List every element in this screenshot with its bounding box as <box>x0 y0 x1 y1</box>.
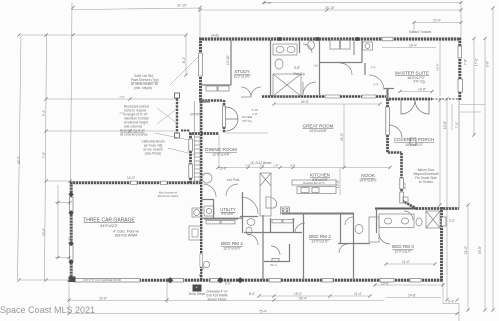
fixture: walk rungs <box>194 137 200 181</box>
window: garage north post1 <box>131 181 138 184</box>
wall: house-garage wall <box>200 101 202 280</box>
svg-text:Pull Down Stairs: Pull Down Stairs <box>158 194 179 198</box>
svg-text:4": 4" <box>196 286 199 290</box>
fixture: fridge diagonal2 <box>260 173 271 186</box>
window: south wall window bed3b <box>410 278 421 282</box>
wall: nook east wall <box>400 153 403 201</box>
wall: utility south wall <box>320 62 362 64</box>
node: garage wall diamond3 <box>68 241 73 246</box>
svg-text:KITCHEN: KITCHEN <box>310 173 330 178</box>
wire: garage mid dim y202 <box>55 202 70 204</box>
window: great room sliding door <box>386 107 390 135</box>
fixture: bath3 sink <box>384 218 391 224</box>
fixture: utility ahu circle <box>206 208 211 213</box>
door: bed3 door arc <box>379 233 390 244</box>
svg-text:5'-10": 5'-10" <box>252 108 259 112</box>
fixture: bath3 shower <box>426 211 440 228</box>
window: dining west window 1 <box>189 139 193 151</box>
window: south wall window bed4 <box>168 278 184 282</box>
door: bed2 door arc <box>295 223 305 233</box>
svg-text:COVERED PORCH: COVERED PORCH <box>394 137 435 142</box>
svg-text:w/ Screen: w/ Screen <box>419 180 433 184</box>
wire: bottom dim line y313 <box>69 313 459 315</box>
svg-text:11'-4": 11'-4" <box>354 292 362 296</box>
wall: entry door wall vertical <box>223 100 226 133</box>
fixture: bath toilet <box>275 59 283 69</box>
wire: right vertical dim x468 <box>467 205 469 310</box>
fixture: bath shower <box>273 74 301 96</box>
svg-text:FOYER: FOYER <box>242 115 253 119</box>
svg-text:14'-8": 14'-8" <box>418 88 426 92</box>
door: garage door opening in south wall <box>74 278 140 282</box>
svg-text:10'0"x10'0": 10'0"x10'0" <box>359 179 377 183</box>
wire: dim line y167 center <box>218 167 390 169</box>
wire: left vertical dim x46 <box>45 35 47 280</box>
svg-text:5'-8": 5'-8" <box>294 66 300 70</box>
svg-text:W.I.C.: W.I.C. <box>270 263 277 267</box>
fixture: bath2 tub <box>369 217 379 242</box>
window: bed3 east window <box>442 217 447 226</box>
svg-text:33'-8": 33'-8" <box>478 246 482 254</box>
wire: top dim line third <box>200 9 461 11</box>
wall: dining front wall short <box>189 132 219 135</box>
svg-text:9'4" Clg: 9'4" Clg <box>414 80 425 84</box>
svg-text:DINING ROOM: DINING ROOM <box>205 147 237 152</box>
wall: utility room south wall <box>202 217 243 219</box>
fixture: bath3 shower X2 <box>426 211 440 228</box>
svg-text:ENTRY: ENTRY <box>190 113 202 117</box>
svg-text:3'-4": 3'-4" <box>448 300 454 304</box>
wire: bottom dim y296 short <box>259 295 370 297</box>
wall: garage west wall <box>70 182 73 282</box>
svg-text:Flat Clg: Flat Clg <box>294 72 305 76</box>
fixture: kitchen island top <box>292 180 336 185</box>
wall: cabana bath wall <box>240 216 258 218</box>
wire: bottom dim line y300 <box>69 300 384 302</box>
wire: left dim line y35 <box>21 34 186 36</box>
door: wic door arc <box>339 244 348 253</box>
fixture: kitchen range <box>281 207 290 214</box>
wire: left vertical dim x58 <box>57 185 59 258</box>
fixture: garage water heater circle <box>194 210 200 216</box>
svg-text:Breakfast Bar 42" Hi: Breakfast Bar 42" Hi <box>303 182 325 185</box>
door: bath2 door arc <box>345 217 353 225</box>
wire: right vertical dim x452 <box>451 104 453 130</box>
wall: jog between greatroom and nook wall <box>388 151 402 153</box>
wire: vertical dim at x414 <box>413 23 415 34</box>
door: cabana bath door <box>247 234 258 245</box>
wall: top exterior wall of house <box>199 37 461 40</box>
svg-text:4x4 Post: 4x4 Post <box>227 178 240 182</box>
svg-text:1'-8": 1'-8" <box>273 164 278 168</box>
wall: utility north wall <box>202 199 213 201</box>
fixture: bath3 shower X1 <box>426 211 440 228</box>
fixture: bath2 sink <box>355 225 363 234</box>
svg-text:Brick Steps: Brick Steps <box>189 292 206 296</box>
wall: bed2 closet wall <box>270 218 272 232</box>
fixture: front stoop <box>189 226 201 240</box>
wire: vertical dim x186 entry <box>185 35 187 75</box>
svg-text:BED RM 3: BED RM 3 <box>392 244 414 249</box>
fixture: dining column circle <box>202 173 212 183</box>
svg-text:17'-0": 17'-0" <box>475 58 479 66</box>
window: nook east window1 <box>400 178 404 189</box>
wire: note leader 1 <box>170 56 199 85</box>
window: nook east window2 <box>400 192 404 203</box>
svg-text:6x6 #10 WWM: 6x6 #10 WWM <box>115 234 137 238</box>
fixture: bath3 toilet <box>416 218 422 226</box>
svg-text:21'-0": 21'-0" <box>464 246 468 254</box>
rotated dimension texts <box>17 55 490 254</box>
wire: vertical dim x69 bottom <box>68 281 70 314</box>
wall: entry stoop edge <box>181 130 190 132</box>
fixture: water closet toilet <box>308 41 315 50</box>
svg-text:9'-0": 9'-0" <box>225 282 231 286</box>
svg-text:5'-4": 5'-4" <box>42 110 46 116</box>
svg-text:7'-4": 7'-4" <box>455 122 459 128</box>
svg-text:12'0"x14'8": 12'0"x14'8" <box>212 153 230 157</box>
label: note block2 <box>124 105 149 129</box>
node: garage wall diamond4 <box>68 259 73 264</box>
wall: master east wall <box>458 38 461 100</box>
svg-text:(4) 2x12 Beam: (4) 2x12 Beam <box>251 161 272 165</box>
svg-text:7'-4": 7'-4" <box>370 66 375 70</box>
svg-text:10'0"x21'0": 10'0"x21'0" <box>405 143 423 147</box>
wall: utility west wall <box>213 199 215 218</box>
door: garage entry door arc <box>203 184 216 197</box>
svg-text:2'-8": 2'-8" <box>252 112 257 116</box>
wall: utility closet divider <box>353 40 355 55</box>
fixture: utility washer <box>330 40 340 49</box>
window: south wall window bed2b <box>322 278 333 282</box>
wall: great room east wall <box>386 99 389 153</box>
node: garage wall diamond1 <box>68 192 73 197</box>
window: south wall window bed3a <box>380 278 394 282</box>
wall: master entry wall <box>384 88 394 90</box>
wall: porch header dashed <box>432 98 459 100</box>
node: post diamond bottom3 <box>237 277 243 283</box>
fixture: range burner2 <box>286 208 288 210</box>
svg-text:5'-4": 5'-4" <box>373 83 378 87</box>
wall: master entry stub <box>386 88 388 99</box>
svg-text:10'-8": 10'-8" <box>443 121 447 129</box>
wall: bed2 wic east <box>289 244 291 262</box>
node: post mark top1 <box>278 37 282 41</box>
door: wic arc <box>271 246 280 255</box>
wire: right horiz dim y104 <box>460 104 485 106</box>
svg-text:STUDY: STUDY <box>234 69 250 74</box>
wire: right vertical dim x493 <box>492 8 494 310</box>
wire: left horiz dim y131 <box>46 130 176 132</box>
wire: tag leader <box>199 267 204 276</box>
wall: bath inner wall <box>299 40 301 53</box>
fixture: bath vanity sink <box>276 46 284 52</box>
wire: bed3 dim y264 <box>386 263 435 265</box>
wall: great room north wall <box>262 95 386 98</box>
wire: garage top dim y181 <box>46 180 70 182</box>
wire: vertical dim x219 gallery <box>218 135 220 168</box>
door: bath door arc <box>303 82 316 95</box>
node: post diamond bottom2 <box>217 277 223 283</box>
svg-text:24'-8": 24'-8" <box>301 100 309 104</box>
svg-text:12'0"x11'0": 12'0"x11'0" <box>394 250 412 254</box>
svg-text:(min. height): (min. height) <box>134 86 152 90</box>
door: utility door arc <box>340 63 352 75</box>
svg-text:75'-4": 75'-4" <box>259 310 267 314</box>
fixture: study closet doors2 <box>218 86 229 91</box>
svg-text:31'-10": 31'-10" <box>177 4 187 8</box>
door: bath door leaf <box>302 82 304 95</box>
svg-text:8'-4": 8'-4" <box>249 292 255 296</box>
svg-text:MASTER SUITE: MASTER SUITE <box>395 71 429 76</box>
svg-text:BED RM 2: BED RM 2 <box>309 234 331 239</box>
node: door tag circle A <box>203 261 209 267</box>
fixture: range burner1 <box>282 208 284 210</box>
wire: vertical dim x167 bottom <box>166 281 168 303</box>
node: post mark top2 <box>316 37 320 41</box>
wall: entry front wall <box>199 99 222 102</box>
wall: bed2 east wall <box>303 214 305 280</box>
svg-text:LIN.: LIN. <box>314 64 319 68</box>
wall: bath2-bed3 wall <box>353 214 355 280</box>
fixture: island sink <box>301 188 309 193</box>
svg-text:7'-0": 7'-0" <box>42 152 46 158</box>
svg-text:22'-8": 22'-8" <box>99 296 107 300</box>
svg-text:7'-0": 7'-0" <box>119 95 124 99</box>
wire: right horiz dim y112 <box>460 111 481 113</box>
svg-text:11'-0": 11'-0" <box>402 260 410 264</box>
wall: porch east screen line <box>458 99 460 209</box>
wire: master interior dim x440 <box>439 40 441 96</box>
wire: master interior dim y47 <box>382 47 436 49</box>
svg-text:all covered porches: all covered porches <box>120 133 148 137</box>
wall: dining west exterior wall <box>189 133 192 183</box>
window: master top window <box>382 37 393 41</box>
fixture: concrete steps block <box>193 285 202 292</box>
door: dining-kitchen arc <box>241 197 258 214</box>
fixture: cabana sink <box>247 219 255 226</box>
wall: bed4 closet north <box>204 218 238 220</box>
wire: vertical dim x200 top <box>199 8 201 39</box>
wall: hall jog wall <box>364 63 366 75</box>
wall: study left exterior wall <box>199 38 202 101</box>
wire: note leader 2 <box>157 108 178 124</box>
wall: bed2 west wall <box>262 215 264 280</box>
wire: right vertical dim x447 <box>446 99 448 300</box>
svg-text:16'0"x7'0" O.H. GARAGE DOOR: 16'0"x7'0" O.H. GARAGE DOOR <box>83 278 121 282</box>
door: entry door panel <box>223 106 226 127</box>
fixture: kitchen island main <box>297 187 336 194</box>
wall: house south wall <box>167 279 443 282</box>
fixture: range burner3 <box>282 211 284 213</box>
window: dining west window 2 <box>189 164 193 178</box>
svg-text:35'-10": 35'-10" <box>262 1 271 5</box>
wire: bottom dim y297 right <box>386 297 441 299</box>
wall: bed3 east exterior wall <box>440 207 443 281</box>
fixture: bath shower X line1 <box>273 74 301 96</box>
svg-text:15'-0": 15'-0" <box>294 292 302 296</box>
svg-text:2'-0": 2'-0" <box>449 219 455 223</box>
svg-text:22'-0": 22'-0" <box>17 156 21 164</box>
svg-text:(4x6): (4x6) <box>211 34 218 38</box>
node: garage wall diamond2 <box>68 210 73 215</box>
svg-text:12'0"x10'0": 12'0"x10'0" <box>223 247 241 251</box>
wall: courtyard wall segment x176 <box>176 95 178 136</box>
wire: kitchen dim y104 <box>274 103 380 105</box>
fixture: garage water heater box <box>192 208 201 217</box>
wire: vertical dim x459 bottom <box>458 304 460 321</box>
window: master east window 1 <box>458 46 462 58</box>
door: wc door arc <box>303 44 312 53</box>
svg-text:GREAT ROOM: GREAT ROOM <box>303 124 334 129</box>
wall: garage south wall <box>70 279 167 282</box>
svg-text:5'0"x9'0": 5'0"x9'0" <box>222 212 236 216</box>
wall: entry-study wall <box>230 40 232 85</box>
svg-text:19'0"x24'8": 19'0"x24'8" <box>309 129 327 133</box>
wall: utility east wall <box>361 40 363 63</box>
wall: bath east wall <box>319 40 321 96</box>
wire: nook vertical dim x340 <box>339 168 341 195</box>
wall: bed2 closet east <box>293 218 295 232</box>
wire: left vertical dim x19 <box>18 35 22 280</box>
door: study double doors <box>241 87 261 97</box>
svg-text:14'-0": 14'-0" <box>127 176 135 180</box>
window: great room north header2 <box>362 95 376 98</box>
svg-text:8'0" Clg: 8'0" Clg <box>243 119 252 123</box>
door: bath3 door <box>404 211 413 220</box>
fixture: bath vanity <box>273 44 297 55</box>
fixture: stoop inner <box>192 229 198 237</box>
svg-text:16'-4": 16'-4" <box>409 44 417 48</box>
fixture: kitchen tall cabinets <box>260 173 271 216</box>
wire: gallery line <box>225 132 268 134</box>
fixture: bed2 closet doors <box>272 220 282 223</box>
fixture: bath vanity sink2 <box>287 46 295 52</box>
fixture: bath3 sink2 <box>401 218 408 224</box>
wire: top dim line outermost <box>264 2 461 4</box>
wire: right vertical dim x474 <box>473 39 475 136</box>
wall: kitchen south half wall <box>282 213 354 215</box>
label: watermark Space Coast MLS 2021 <box>0 305 95 315</box>
fixture: bath3 vanity <box>379 214 414 228</box>
window: study left window <box>199 53 203 76</box>
window: south wall window bed2a <box>269 278 281 282</box>
svg-text:25'-10": 25'-10" <box>325 6 335 10</box>
svg-text:NOOK: NOOK <box>361 173 375 178</box>
wire: vertical dim x344 great room <box>343 104 345 167</box>
wire: bottom dim y285 short <box>375 284 443 286</box>
wire: bottom dim y303 short <box>443 303 459 305</box>
wall: bath2 west wall <box>340 214 342 244</box>
svg-text:BED RM 4: BED RM 4 <box>221 241 243 246</box>
window: master east window 2 <box>458 79 463 92</box>
wall: bath3 west vertical <box>376 209 378 234</box>
svg-text:11'0"x13'0": 11'0"x13'0" <box>233 75 251 79</box>
door: garage entry door arc2 <box>226 184 238 196</box>
wire: bottom-left dim y280 <box>19 279 69 281</box>
wall: bath2 south wall <box>338 243 370 245</box>
wire: right vertical dim x485 <box>484 39 486 311</box>
label: note plant shelf <box>131 74 159 90</box>
fixture: entry walk rails <box>194 101 200 183</box>
fixture: utility ahu box <box>204 206 214 216</box>
fixture: study closet doors <box>206 86 217 91</box>
fixture: utility dryer <box>341 40 351 49</box>
svg-text:10'-8": 10'-8" <box>381 282 389 286</box>
svg-text:12'-8": 12'-8" <box>336 180 340 188</box>
door: master french doors <box>401 100 429 114</box>
wire: garage dim y257 <box>55 257 70 259</box>
wire: left horiz dim y99 <box>46 98 176 100</box>
svg-text:8'-0": 8'-0" <box>290 164 295 168</box>
fixture: bath shower X line2 <box>273 74 301 96</box>
wire: vertical dim x73 <box>71 2 73 181</box>
svg-text:13'-10": 13'-10" <box>226 55 230 65</box>
svg-text:7'-0": 7'-0" <box>119 112 124 116</box>
fixture: utility tub <box>363 42 373 50</box>
wall: hall south wall bed4 <box>244 232 302 234</box>
fixture: utility tub circle <box>365 44 370 49</box>
node: garage sw corner <box>69 277 76 283</box>
wall: bath3 hall wall <box>375 208 416 210</box>
svg-text:Scissor Trusses: Scissor Trusses <box>409 30 432 34</box>
svg-text:14'-8": 14'-8" <box>408 294 416 298</box>
fixture: wic bifold <box>272 259 279 262</box>
window: garage wall opening <box>200 254 203 267</box>
wire: vertical dim x461 top <box>460 3 462 39</box>
svg-text:9'-8": 9'-8" <box>486 61 490 67</box>
wall: bath3 north wall / porch south <box>416 207 459 210</box>
svg-text:Broom Finish: Broom Finish <box>208 298 227 302</box>
svg-text:21'-4": 21'-4" <box>433 19 441 23</box>
door: entry double doors <box>226 107 238 131</box>
window: great room north header1 <box>325 95 340 98</box>
svg-text:THREE CAR GARAGE: THREE CAR GARAGE <box>83 218 135 224</box>
label: note block3 <box>120 129 148 137</box>
wire: master porch dim x440 <box>439 100 441 205</box>
fixture: porch post <box>410 138 416 145</box>
door: hall arch arc <box>369 75 384 90</box>
wall: nook bay diagonal <box>402 201 417 210</box>
svg-text:12'0"x11'6": 12'0"x11'6" <box>311 240 329 244</box>
fixture: bed2 closet doors2 <box>283 220 293 223</box>
svg-text:(See Plans): (See Plans) <box>145 152 162 156</box>
node: post diamond bottom1 <box>167 277 173 283</box>
node: courtyard wall end post top <box>175 93 180 98</box>
svg-text:10'-0": 10'-0" <box>403 182 407 189</box>
wall: entry south stub <box>199 100 210 102</box>
svg-text:8'-0": 8'-0" <box>68 237 72 243</box>
fixture: bed4 closet doors2 <box>221 221 235 224</box>
door: porch door arc <box>389 125 402 138</box>
svg-text:22'-0": 22'-0" <box>42 228 46 236</box>
fixture: range burner4 <box>286 211 288 213</box>
wire: note leader 3 <box>155 133 189 140</box>
wire: vertical dim x443 bottom <box>442 281 444 304</box>
wall: garage north wall <box>70 181 201 184</box>
svg-text:16'-8": 16'-8" <box>436 63 440 71</box>
node: post mark top3 <box>356 37 360 41</box>
fixture: fridge diagonal1 <box>260 173 271 186</box>
fixture: bed4 closet doors <box>206 221 220 224</box>
wire: right horiz dim y91 master <box>400 91 432 93</box>
fixture: island dw <box>312 188 319 193</box>
svg-text:34'0"x22'0": 34'0"x22'0" <box>100 224 118 228</box>
fixture: porch post2 <box>403 197 408 202</box>
window: garage west opening 2 <box>69 245 73 260</box>
wire: master top dim <box>414 22 461 24</box>
node: courtyard wall end post bottom <box>175 133 180 138</box>
